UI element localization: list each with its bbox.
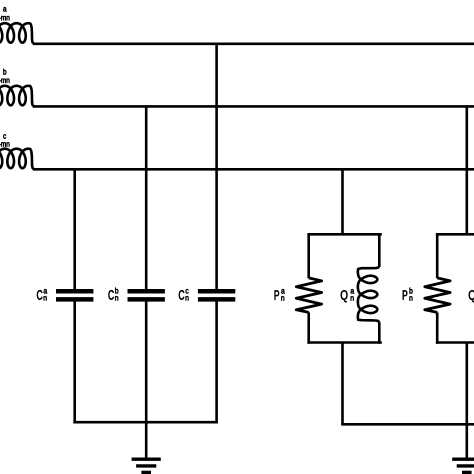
label P_n^a (275, 289, 285, 300)
wire drop from phase b down to capacitor C_n^b (145, 106, 148, 289)
label P_n^b (403, 288, 413, 301)
wire drop from phase a down to capacitor C_n^c (215, 44, 218, 289)
wire below capacitor C_n^b down to neutral bus (145, 301, 148, 423)
wire load box 1 left side upper (307, 233, 310, 278)
wire from load box 2 through bus down to ground (465, 343, 468, 460)
label Q_n^b cropped at right edge (469, 290, 474, 302)
wire phase b horizontal line (33, 105, 474, 108)
wire neutral bus of capacitor group (73, 421, 218, 424)
wire load box 1 left side lower (307, 312, 310, 343)
load box 2 top wire (cropped at right edge) (436, 233, 474, 236)
wire load box 2 left side lower (436, 312, 439, 343)
label C_n^a (37, 289, 47, 300)
load box 2 bottom wire (cropped at right edge) (436, 341, 474, 344)
label fragment superscript a (0, 7, 9, 20)
wire drop from phase b down to load box 2 (465, 106, 468, 234)
wire load box 2 left side upper (436, 233, 439, 278)
resistor P_n^b (425, 278, 450, 313)
label C_n^b (109, 288, 119, 301)
label fragment superscript b (0, 69, 9, 83)
wire ground stem left (145, 422, 148, 459)
wire neutral bus of load group (341, 423, 474, 426)
wire load box 1 right side lower (378, 322, 381, 344)
wire load box 1 right side upper (378, 233, 381, 267)
wire phase a horizontal line (33, 42, 474, 45)
wire phase c horizontal line (33, 168, 474, 171)
wire below capacitor C_n^c down to neutral bus (215, 301, 218, 423)
label Q_n^a (341, 289, 354, 302)
capacitor C_n^a (56, 289, 93, 294)
label C_n^c (179, 289, 189, 300)
load box 1 top wire (307, 233, 381, 236)
wire below capacitor C_n^a down to neutral bus (73, 301, 76, 423)
wire drop from phase c down to capacitor C_n^a (73, 169, 76, 289)
inductor phase b series impedance (cropped at left edge) (0, 86, 35, 107)
inductor phase a series impedance (cropped at left edge) (0, 23, 35, 44)
capacitor C_n^b (128, 289, 165, 294)
resistor P_n^a (296, 278, 321, 313)
ground symbol right (cropped at right edge) (452, 459, 474, 472)
wire drop from phase c down to load box 1 (341, 169, 344, 234)
load box 1 bottom wire (307, 341, 381, 344)
inductor Q_n^a (358, 266, 379, 322)
wire from load box 1 down to neutral bus (341, 343, 344, 425)
inductor phase c series impedance (cropped at left edge) (0, 149, 35, 170)
ground symbol left (132, 459, 161, 472)
capacitor C_n^c (198, 289, 235, 294)
label fragment superscript c (0, 134, 9, 146)
